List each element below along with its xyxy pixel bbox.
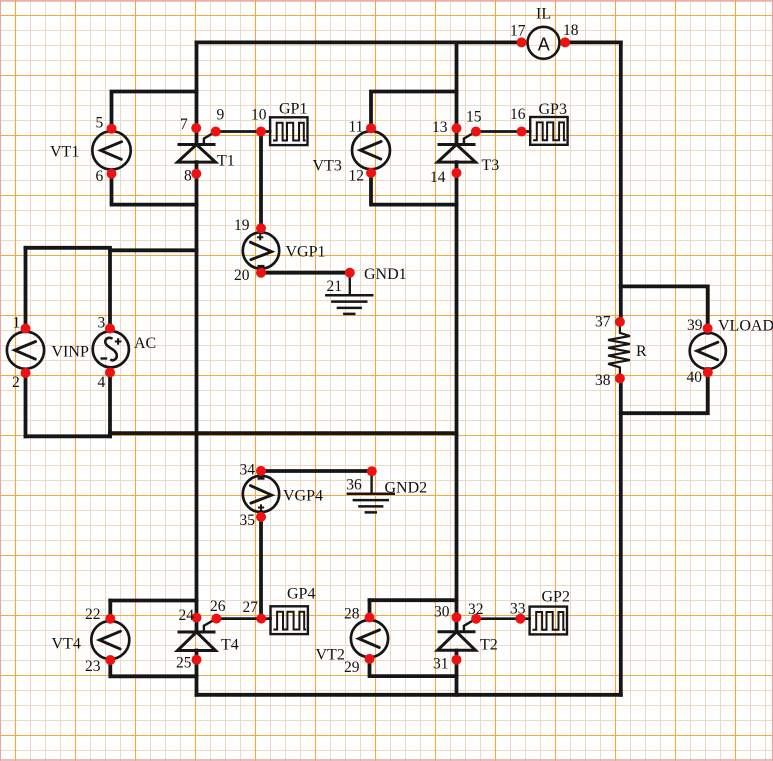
wire VINP top lead [24, 248, 28, 331]
wire T1 gate horizontal node 9 to GP1 [216, 130, 270, 133]
svg-text:8: 8 [184, 168, 192, 185]
pulse generator GP4 [271, 606, 308, 634]
node 17 [517, 37, 527, 47]
voltmeter VLOAD [690, 333, 726, 369]
wire VT1 top bracket [112, 92, 197, 129]
pulse generator GP3 [530, 117, 567, 145]
wire T4 gate diagonal [204, 619, 217, 632]
wire VGP1 column from node 10 to VGP1 plus [259, 132, 263, 233]
node 24 [192, 613, 202, 623]
wire VLOAD top bracket [621, 286, 708, 332]
wire top rail from ammeter to right column corner [565, 41, 621, 45]
wire T1 gate diagonal [204, 132, 216, 145]
node 16 [517, 127, 527, 137]
svg-text:10: 10 [251, 107, 267, 124]
svg-text:GP2: GP2 [542, 589, 570, 606]
svg-text:GP4: GP4 [287, 586, 315, 603]
svg-text:18: 18 [563, 22, 579, 39]
svg-text:VINP: VINP [52, 344, 89, 361]
wire GND2 stub [370, 471, 372, 494]
node 12 [366, 168, 376, 178]
svg-text:24: 24 [179, 607, 195, 624]
node 9 [211, 127, 221, 137]
svg-text:GP3: GP3 [539, 101, 567, 118]
node 7 [191, 123, 201, 133]
wire VGP1 minus to GND1 node 21 [261, 269, 350, 273]
voltage source VGP1 [243, 232, 279, 268]
pulse generator GP2 [530, 607, 567, 635]
svg-text:VGP4: VGP4 [283, 488, 323, 505]
svg-text:T1: T1 [217, 153, 235, 170]
svg-text:20: 20 [234, 267, 250, 284]
node 27 [256, 614, 266, 624]
node 26 [211, 614, 221, 624]
node 13 [452, 123, 462, 133]
svg-text:T2: T2 [480, 637, 498, 654]
svg-text:28: 28 [344, 606, 360, 623]
svg-text:17: 17 [510, 23, 526, 40]
node 39 [703, 323, 713, 333]
svg-text:5: 5 [96, 115, 104, 132]
screenshot selection border left [0, 0, 2, 761]
node 4 [105, 368, 115, 378]
ground GND1 [325, 295, 373, 314]
svg-text:3: 3 [98, 315, 106, 332]
svg-text:16: 16 [510, 106, 526, 123]
svg-text:12: 12 [349, 168, 365, 185]
voltmeter VT1 [92, 131, 130, 169]
resistor R [608, 322, 630, 379]
svg-text:VT3: VT3 [313, 158, 342, 175]
wire VT2 circle top lead [368, 600, 372, 620]
wire VINP bottom lead [24, 370, 28, 437]
wire VGP4 minus down to lower gate wire node 27 [259, 512, 263, 619]
svg-text:VT2: VT2 [316, 647, 345, 664]
thyristor T4 [178, 632, 216, 651]
wire AC column top lead [108, 250, 112, 330]
node 34 [256, 466, 266, 476]
node 28 [365, 613, 375, 623]
svg-text:37: 37 [595, 314, 611, 331]
svg-text:T3: T3 [482, 157, 500, 174]
node 37 [615, 317, 625, 327]
wire right column lower segment from node 38 to bottom rail corner [619, 378, 623, 694]
svg-text:GND2: GND2 [385, 480, 428, 497]
node 35 [256, 512, 266, 522]
wire T3/T2 column from T3 anode down to T2 cathode bar [455, 162, 459, 632]
ground GND2 [347, 494, 395, 513]
node 33 [515, 614, 525, 624]
wire top rail from T1 column to ammeter [197, 41, 522, 45]
svg-text:2: 2 [12, 374, 20, 391]
svg-text:11: 11 [349, 119, 364, 136]
wire VINP bottom to AC column [26, 434, 111, 438]
wire VT3 bottom bracket [371, 173, 457, 205]
voltmeter VINP [7, 332, 44, 369]
svg-text:VT4: VT4 [52, 636, 81, 653]
svg-text:30: 30 [434, 604, 450, 621]
svg-text:27: 27 [243, 599, 259, 616]
wire right column upper segment down to node 37 [619, 42, 623, 322]
node 8 [191, 169, 201, 179]
node 32 [471, 614, 481, 624]
wire VGP4 to GND2 node 36 [261, 469, 372, 473]
wire central column from T4 anode down to bottom rail [195, 651, 199, 695]
wire VT3 top bracket [371, 92, 457, 129]
node 36 [367, 466, 377, 476]
svg-text:AC: AC [134, 335, 156, 352]
wire central column top drop from rail to T1 cathode bar [195, 42, 199, 144]
AC source AC [93, 331, 129, 367]
node 25 [192, 655, 202, 665]
svg-text:1: 1 [13, 315, 21, 332]
wire VT2 bottom lead and bracket [370, 657, 457, 676]
svg-text:IL: IL [536, 6, 551, 23]
node 38 [615, 373, 625, 383]
wire VINP to AC top [26, 246, 111, 250]
node 6 [107, 169, 117, 179]
node 30 [452, 612, 462, 622]
wire VGP4 top lead [259, 471, 263, 476]
wire AC column bottom lead [108, 369, 112, 437]
voltmeter VT3 [352, 131, 390, 169]
svg-text:40: 40 [687, 369, 703, 386]
svg-text:6: 6 [96, 168, 104, 185]
wire T3 gate diagonal [464, 132, 476, 145]
screenshot selection border bottom [0, 759, 773, 761]
svg-text:25: 25 [176, 655, 192, 672]
ammeter IL [528, 27, 560, 59]
svg-text:T4: T4 [221, 637, 239, 654]
voltage source VGP4 [243, 476, 279, 512]
wire AC top to central column [110, 248, 197, 252]
svg-text:34: 34 [240, 462, 256, 479]
node 19 [256, 223, 266, 233]
node 1 [21, 324, 31, 334]
svg-text:GND1: GND1 [364, 266, 407, 283]
wire central column from T1 anode down to T4 cathode bar [195, 162, 199, 632]
svg-text:VGP1: VGP1 [286, 244, 326, 261]
wire T4 gate horizontal node 26 to GP4 [216, 617, 270, 620]
svg-text:4: 4 [98, 374, 106, 391]
wire GND1 stub [349, 273, 351, 296]
node 10 [256, 127, 266, 137]
svg-text:31: 31 [433, 656, 449, 673]
svg-text:36: 36 [346, 476, 362, 493]
node 2 [21, 368, 31, 378]
node 40 [703, 367, 713, 377]
svg-text:23: 23 [85, 658, 101, 675]
svg-text:35: 35 [240, 512, 256, 529]
svg-text:33: 33 [510, 601, 526, 618]
wire T2 gate horizontal node 32 to GP2 [476, 617, 529, 620]
wire VT4 top bracket [110, 599, 196, 603]
thyristor T3 [438, 145, 476, 163]
svg-text:7: 7 [180, 116, 188, 133]
svg-text:14: 14 [430, 169, 446, 186]
svg-text:32: 32 [468, 601, 484, 618]
wire T2 gate diagonal [464, 619, 476, 632]
svg-text:15: 15 [466, 109, 482, 126]
wire VT1 bottom bracket [112, 174, 197, 205]
node 21 [345, 268, 355, 278]
wire VLOAD bottom bracket [621, 369, 708, 413]
node 20 [256, 268, 266, 278]
screenshot selection border top [0, 0, 773, 2]
node 3 [105, 324, 115, 334]
node 14 [452, 168, 462, 178]
wire AC bottom to T3/T2 column [110, 431, 457, 435]
node 5 [107, 124, 117, 134]
pulse generator GP1 [270, 117, 307, 145]
node 22 [105, 614, 115, 624]
svg-text:13: 13 [432, 119, 448, 136]
node 31 [452, 655, 462, 665]
node 18 [560, 37, 570, 47]
voltmeter VT2 [351, 620, 388, 657]
node 15 [471, 127, 481, 137]
wire VT2 top bracket [370, 598, 457, 602]
svg-text:VLOAD: VLOAD [718, 318, 773, 335]
svg-text:GP1: GP1 [279, 101, 307, 118]
svg-text:39: 39 [687, 317, 703, 334]
wire VT4 bottom lead and bracket [110, 659, 196, 676]
svg-text:38: 38 [595, 372, 611, 389]
wire T3 gate horizontal node 15 to GP3 [476, 130, 530, 133]
svg-text:19: 19 [234, 217, 250, 234]
thyristor T1 [178, 145, 216, 163]
wire VT4 circle top lead [108, 601, 112, 622]
svg-text:21: 21 [327, 278, 343, 295]
wire T3 column drop from rail to T3 cathode bar [455, 42, 459, 144]
svg-text:26: 26 [210, 598, 226, 615]
voltmeter VT4 [91, 621, 129, 659]
screenshot selection border right [772, 0, 773, 761]
node 29 [365, 654, 375, 664]
svg-text:R: R [636, 343, 647, 360]
wire bottom rail [197, 693, 621, 697]
svg-text:9: 9 [217, 107, 225, 124]
svg-text:A: A [538, 34, 550, 54]
node 23 [105, 655, 115, 665]
svg-text:22: 22 [85, 606, 101, 623]
svg-text:29: 29 [344, 659, 360, 676]
thyristor T2 [438, 632, 476, 651]
wire T2 column from T2 anode down to bottom rail [455, 651, 459, 695]
node 11 [366, 123, 376, 133]
svg-text:VT1: VT1 [50, 144, 79, 161]
